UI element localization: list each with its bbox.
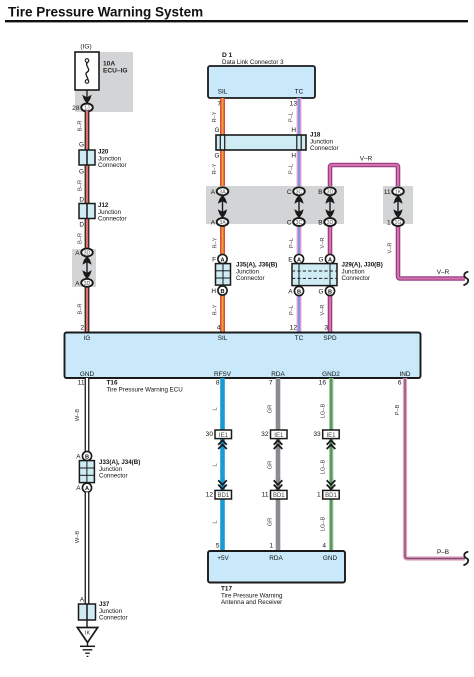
svg-text:D 1: D 1 [222, 52, 233, 59]
svg-text:A: A [288, 289, 293, 296]
svg-text:+5V: +5V [217, 555, 229, 562]
connector IE1 pin 33 [313, 430, 339, 439]
svg-text:4: 4 [217, 325, 221, 332]
in-line connector arrows 3D [325, 195, 334, 219]
chevrons up [327, 440, 336, 449]
oval 3A bottom [217, 218, 229, 226]
in-line connector arrows [82, 256, 91, 280]
oval 3D bottom [81, 279, 93, 287]
svg-text:RDA: RDA [269, 555, 283, 562]
junction connector J18 [216, 135, 306, 150]
chevrons up [274, 440, 283, 449]
T17 box [208, 551, 345, 583]
svg-text:L: L [213, 463, 219, 466]
svg-text:11: 11 [78, 380, 85, 387]
wire fuse to 1J [86, 90, 88, 101]
svg-text:T17: T17 [221, 586, 232, 593]
svg-text:BD1: BD1 [273, 493, 285, 499]
svg-text:B: B [85, 454, 89, 460]
svg-text:A: A [76, 454, 81, 461]
wire P-L (DLC3 TC to oval 3C) [297, 98, 302, 191]
oval 1G [392, 218, 404, 226]
chevrons down [218, 480, 227, 489]
oval 1K [392, 187, 404, 195]
right connector gray box [383, 186, 413, 224]
wire V-R (oval 3D to ECU SPD) [328, 222, 333, 333]
svg-text:H: H [291, 153, 296, 160]
svg-text:B: B [220, 289, 224, 295]
svg-text:W–B: W–B [75, 409, 81, 422]
svg-text:3D: 3D [84, 251, 91, 257]
svg-text:5: 5 [216, 543, 220, 550]
wire V-R upper run (3D oval up, across to 1K) [330, 165, 398, 191]
svg-text:R–Y: R–Y [212, 163, 218, 174]
svg-text:P–B: P–B [437, 549, 449, 556]
svg-text:16: 16 [319, 380, 327, 387]
svg-text:B: B [328, 289, 332, 295]
svg-text:A: A [297, 257, 301, 263]
fuse symbol [86, 62, 89, 82]
svg-text:IE1: IE1 [326, 433, 336, 439]
svg-text:3C: 3C [296, 220, 303, 226]
svg-text:Data Link Connector 3: Data Link Connector 3 [222, 59, 284, 66]
svg-text:10A: 10A [103, 61, 115, 68]
svg-text:A: A [75, 280, 80, 287]
svg-text:SIL: SIL [218, 335, 228, 342]
svg-text:G: G [79, 169, 84, 176]
svg-text:L: L [213, 407, 219, 410]
svg-text:12: 12 [206, 491, 214, 498]
svg-text:A: A [211, 220, 216, 227]
junction connector J37 [79, 604, 96, 620]
wire GR (RDA to RDA) [276, 378, 281, 551]
svg-text:G: G [319, 257, 324, 264]
svg-text:A: A [85, 486, 89, 492]
svg-text:V–R: V–R [360, 156, 373, 163]
connector IE1 pin 30 [206, 430, 232, 439]
svg-text:33: 33 [313, 431, 321, 438]
svg-text:J37: J37 [99, 601, 110, 608]
connector IE1 pin 32 [261, 430, 287, 439]
svg-text:GR: GR [268, 405, 274, 414]
chevrons down [327, 480, 336, 489]
wire B-R (oval 3D to ECU IG) [85, 283, 90, 333]
svg-text:3C: 3C [296, 189, 303, 195]
svg-text:SIL: SIL [218, 89, 228, 96]
svg-text:7: 7 [269, 380, 273, 387]
svg-text:V–R: V–R [320, 304, 326, 315]
svg-text:LG–B: LG–B [321, 460, 327, 475]
svg-text:J33(A), J34(B): J33(A), J34(B) [99, 459, 140, 466]
svg-text:G: G [79, 142, 84, 149]
svg-text:6: 6 [398, 380, 402, 387]
connector BD1 pin 11 [262, 490, 287, 499]
svg-text:A: A [75, 250, 80, 257]
svg-text:3A: 3A [219, 220, 226, 226]
svg-text:P–L: P–L [289, 112, 295, 122]
wire P-L (oval 3C to ECU TC) [297, 222, 302, 333]
svg-text:E: E [288, 257, 292, 264]
svg-text:IE1: IE1 [274, 433, 284, 439]
svg-text:Tire Pressure Warning System: Tire Pressure Warning System [8, 5, 203, 20]
svg-text:1: 1 [387, 220, 391, 227]
svg-text:J12: J12 [98, 202, 109, 209]
svg-text:J18: J18 [310, 132, 321, 139]
svg-text:B: B [318, 189, 322, 196]
svg-text:Connector: Connector [98, 216, 127, 223]
svg-text:ECU–IG: ECU–IG [103, 68, 128, 75]
svg-text:LG–B: LG–B [321, 517, 327, 532]
svg-text:J20: J20 [98, 149, 109, 156]
wire B-R (fuse to oval 3D) [85, 111, 90, 252]
chevrons down [274, 480, 283, 489]
svg-text:2: 2 [80, 325, 84, 332]
svg-text:GND2: GND2 [322, 371, 340, 378]
svg-text:RFSV: RFSV [214, 371, 232, 378]
ground [77, 628, 97, 657]
svg-text:Tire Pressure Warning ECU: Tire Pressure Warning ECU [107, 387, 183, 394]
wire P-B (IND down and right) [405, 378, 465, 559]
svg-text:L: L [213, 520, 219, 523]
svg-text:TC: TC [295, 335, 304, 342]
svg-text:13: 13 [290, 101, 298, 108]
svg-text:D: D [79, 222, 84, 229]
svg-text:B: B [318, 220, 322, 227]
svg-text:A: A [211, 189, 216, 196]
fuse area gray panel [75, 52, 133, 112]
svg-text:B–R: B–R [78, 120, 84, 131]
svg-text:R–Y: R–Y [213, 304, 219, 315]
svg-text:P–L: P–L [289, 238, 295, 248]
svg-text:J35(A), J36(B): J35(A), J36(B) [236, 262, 277, 269]
svg-text:4: 4 [322, 543, 326, 550]
svg-text:(IG): (IG) [80, 44, 91, 51]
oval 1J [81, 104, 93, 112]
svg-text:D: D [79, 197, 84, 204]
svg-text:F: F [212, 257, 216, 264]
svg-text:3A: 3A [219, 189, 226, 195]
svg-text:C: C [287, 220, 292, 227]
in-line connector arrows 3A [218, 195, 227, 219]
junction connector J33(A), J34(B) [76, 451, 94, 492]
svg-text:G: G [319, 289, 324, 296]
svg-text:GND: GND [80, 371, 95, 378]
svg-text:TC: TC [295, 89, 304, 96]
svg-text:RDA: RDA [271, 371, 285, 378]
connector BD1 pin 1 [317, 490, 339, 499]
svg-text:32: 32 [261, 431, 269, 438]
svg-text:Connector: Connector [236, 275, 265, 282]
svg-text:A: A [220, 257, 224, 263]
middle connector gray band [206, 186, 344, 224]
svg-text:1: 1 [317, 491, 321, 498]
wire R-Y (oval 3A to ECU SIL) [220, 222, 225, 333]
svg-text:IK: IK [85, 631, 90, 637]
svg-text:H: H [291, 127, 296, 134]
svg-text:R–Y: R–Y [212, 111, 218, 122]
svg-text:LG–B: LG–B [321, 404, 327, 419]
ECU T16 box [65, 333, 421, 379]
svg-text:C: C [287, 189, 292, 196]
svg-text:Connector: Connector [310, 145, 339, 152]
svg-text:B–R: B–R [78, 180, 84, 191]
svg-text:IE1: IE1 [219, 433, 229, 439]
svg-text:Connector: Connector [99, 473, 128, 480]
svg-text:1J: 1J [84, 106, 90, 112]
svg-text:P–B: P–B [395, 404, 401, 415]
wire LG-B (GND2 to GND) [329, 378, 333, 551]
svg-text:BD1: BD1 [217, 493, 229, 499]
svg-text:12: 12 [290, 325, 298, 332]
junction connector J29(A), J30(B) [288, 254, 337, 295]
svg-text:Connector: Connector [342, 275, 371, 282]
svg-text:A: A [328, 257, 332, 263]
junction connector J35(A), J36(B) [211, 254, 230, 295]
chevrons up [218, 440, 227, 449]
svg-text:11: 11 [262, 491, 269, 498]
svg-text:B–R: B–R [78, 303, 84, 314]
svg-text:3: 3 [324, 325, 328, 332]
svg-text:30: 30 [206, 431, 214, 438]
connector BD1 pin 12 [206, 490, 232, 499]
svg-text:W–B: W–B [75, 531, 81, 544]
svg-text:V–R: V–R [388, 242, 394, 253]
svg-text:V–R: V–R [437, 269, 450, 276]
in-line connector arrows 3C [294, 195, 303, 219]
svg-text:B–R: B–R [78, 233, 84, 244]
wire W-B (GND to J33) [85, 378, 90, 452]
fuse box [75, 52, 99, 90]
svg-text:G: G [215, 127, 220, 134]
oval 3A top [217, 187, 229, 195]
svg-text:A: A [80, 597, 85, 604]
svg-text:J29(A), J30(B): J29(A), J30(B) [342, 262, 383, 269]
wire V-R right column down [398, 222, 465, 279]
continuation squiggle V-R [464, 272, 468, 285]
junction connector J12 [79, 204, 95, 219]
svg-text:A: A [76, 485, 81, 492]
svg-text:GR: GR [268, 518, 274, 527]
svg-text:P–L: P–L [289, 305, 295, 315]
svg-text:GR: GR [268, 461, 274, 470]
svg-text:8: 8 [216, 380, 220, 387]
svg-text:3D: 3D [327, 189, 334, 195]
wire W-B (J33 to J37) [85, 492, 90, 604]
wire L (RFSV to +5V) [220, 378, 225, 551]
oval 3C top [293, 187, 305, 195]
svg-text:BD1: BD1 [325, 493, 337, 499]
svg-text:SPD: SPD [323, 335, 337, 342]
svg-text:GND: GND [323, 555, 338, 562]
left connector gray band [72, 249, 96, 287]
svg-text:G: G [215, 153, 220, 160]
wire to ground [86, 620, 88, 628]
svg-text:28: 28 [72, 105, 80, 112]
svg-text:Connector: Connector [99, 615, 128, 622]
svg-text:11: 11 [384, 189, 391, 196]
junction connector J20 [79, 150, 95, 165]
svg-text:1: 1 [269, 543, 273, 550]
title rule [5, 20, 468, 22]
svg-text:H: H [211, 288, 216, 295]
oval 3D bottom [324, 218, 336, 226]
svg-text:R–Y: R–Y [213, 237, 219, 248]
svg-text:T16: T16 [107, 379, 118, 386]
svg-text:1K: 1K [395, 189, 402, 195]
wire R-Y (DLC3 SIL to oval 3A) [220, 98, 225, 191]
svg-text:V–R: V–R [320, 237, 326, 248]
oval 3C bottom [293, 218, 305, 226]
svg-text:IG: IG [84, 335, 91, 342]
svg-text:Connector: Connector [98, 162, 127, 169]
svg-text:B: B [297, 289, 301, 295]
svg-text:3D: 3D [327, 220, 334, 226]
svg-text:IND: IND [399, 371, 410, 378]
oval 3D top [81, 248, 93, 256]
svg-text:3D: 3D [84, 281, 91, 287]
oval 3D top [324, 187, 336, 195]
svg-text:P–L: P–L [289, 164, 295, 174]
in-line connector arrows 1K/1G [393, 195, 402, 219]
continuation squiggle P-B [464, 552, 468, 565]
svg-text:Antenna and Receiver: Antenna and Receiver [221, 599, 282, 606]
svg-text:1G: 1G [395, 220, 402, 226]
